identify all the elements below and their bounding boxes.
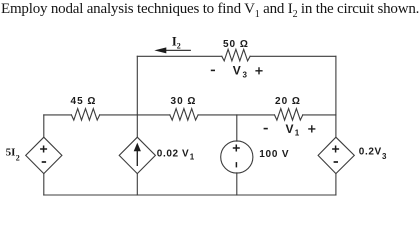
svg-text:2: 2 [16,153,20,162]
wire: right vertical upper (x=336, top wire to mid wire) [335,56,337,115]
wire: vertical x=137 from mid wire to 0.02V1 source top [136,115,138,137]
svg-text:0.02 V: 0.02 V [157,149,190,160]
resistor 50ohm zigzag on top wire [222,49,250,61]
svg-text:0.2V: 0.2V [359,147,382,158]
plus sign of V3 polarity [255,67,262,74]
plus sign inside 0.2V3 source [332,146,339,153]
svg-text:2: 2 [177,42,181,51]
wire: mid horizontal between 45ohm and 30ohm [100,114,170,116]
resistor R 30ohm zigzag [170,109,198,121]
wire: mid horizontal between 30ohm and 20ohm [198,114,274,116]
wire: bottom horizontal [44,194,336,196]
wire: left vertical from 5I2 source bottom to bottom wire [43,174,45,195]
title: problem statement text [1,1,419,18]
minus sign of V3 polarity (left of 50ohm label row) [211,69,215,71]
minus sign (vertical tick) inside 100V source [235,162,237,167]
wire: vertical x=236.8 from mid wire to 100V source top [236,115,238,141]
wire: vertical x=236.8 from 100V source bottom to bottom wire [236,173,238,195]
plus sign inside 5I2 source [40,146,47,153]
wire: left vertical (x=44) mid wire down to 5I2 source top [43,115,45,137]
minus sign of V1 polarity [264,128,268,130]
svg-text:3: 3 [243,71,248,80]
svg-text:3: 3 [382,152,387,161]
plus sign of V1 polarity [308,125,315,132]
wire: mid horizontal, left corner to 45ohm [44,114,72,116]
svg-text:30 Ω: 30 Ω [171,96,197,107]
independent voltage source 100V circle body [221,141,253,173]
svg-text:1: 1 [295,129,300,138]
resistor R 20ohm zigzag [275,109,303,121]
wire: right vertical from mid wire to 0.2V3 source top [335,115,337,137]
svg-text:45 Ω: 45 Ω [71,96,97,107]
svg-text:50 Ω: 50 Ω [223,39,249,50]
svg-text:V: V [233,64,241,78]
arrow inside 0.02V1 current source (pointing up) [134,143,141,166]
wire: top horizontal right segment [250,55,336,57]
current arrow I2 on top wire (pointing left) [154,47,191,53]
dependent voltage source 5I2 diamond body [26,137,62,173]
wire: top horizontal left segment [137,55,222,57]
svg-text:V: V [286,122,294,136]
resistor R 45ohm zigzag [71,109,99,121]
minus sign inside 5I2 source [42,161,46,163]
wire: top loop left vertical (x=137, top wire to mid wire) [136,56,138,115]
minus sign inside 0.2V3 source [334,161,338,163]
dependent current source 0.02V1 diamond body [119,137,155,173]
svg-text:1: 1 [190,152,195,161]
svg-text:5I: 5I [6,147,16,159]
dependent voltage source 0.2V3 diamond body [318,137,354,173]
svg-text:100 V: 100 V [259,149,289,160]
svg-text:20 Ω: 20 Ω [275,96,301,107]
wire: mid horizontal between 20ohm and right vertical [303,114,336,116]
plus sign inside 100V source [233,145,240,152]
wire: right vertical from 0.2V3 source bottom to bottom wire [335,174,337,195]
wire: vertical x=137 from 0.02V1 source bottom to bottom wire [136,174,138,195]
